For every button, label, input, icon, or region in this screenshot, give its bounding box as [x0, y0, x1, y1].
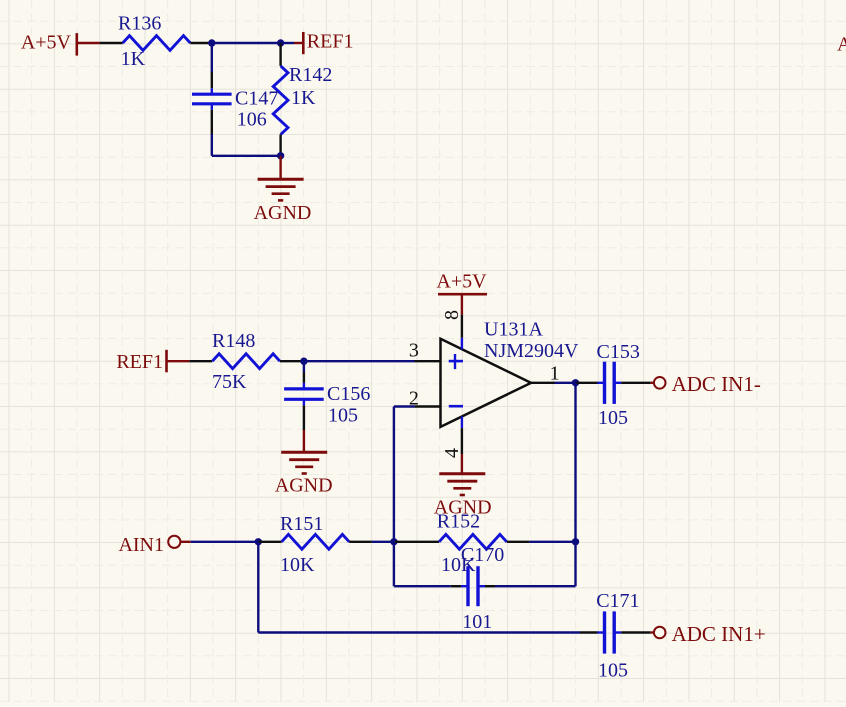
svg-text:105: 105	[598, 660, 628, 682]
svg-text:3: 3	[409, 340, 419, 362]
svg-text:1K: 1K	[291, 87, 316, 109]
svg-text:105: 105	[598, 407, 628, 429]
svg-text:NJM2904V: NJM2904V	[484, 340, 579, 362]
svg-text:A+5V: A+5V	[837, 34, 846, 56]
svg-text:C153: C153	[597, 341, 640, 363]
svg-text:4: 4	[441, 448, 463, 458]
svg-text:1K: 1K	[121, 48, 146, 70]
svg-text:8: 8	[441, 310, 463, 320]
svg-text:R151: R151	[280, 513, 323, 535]
svg-text:C147: C147	[235, 88, 278, 110]
svg-text:A+5V: A+5V	[21, 32, 72, 54]
svg-text:1: 1	[550, 363, 560, 385]
svg-text:75K: 75K	[212, 371, 247, 393]
svg-text:C171: C171	[596, 590, 639, 612]
svg-text:10K: 10K	[280, 554, 315, 576]
svg-text:C170: C170	[461, 544, 504, 566]
svg-text:A+5V: A+5V	[436, 271, 487, 293]
svg-text:R142: R142	[289, 64, 332, 86]
svg-text:ADC IN1-: ADC IN1-	[672, 372, 761, 396]
svg-text:ADC IN1+: ADC IN1+	[672, 622, 766, 646]
svg-text:REF1: REF1	[307, 31, 354, 53]
svg-text:U131A: U131A	[484, 319, 543, 341]
svg-text:101: 101	[462, 611, 492, 633]
svg-text:R136: R136	[118, 13, 161, 35]
svg-text:R152: R152	[437, 511, 480, 533]
svg-text:106: 106	[237, 109, 267, 131]
svg-text:C156: C156	[327, 383, 370, 405]
svg-text:REF1: REF1	[116, 351, 163, 373]
svg-text:AIN1: AIN1	[118, 534, 164, 556]
svg-text:105: 105	[328, 405, 358, 427]
svg-text:R148: R148	[212, 330, 255, 352]
svg-text:AGND: AGND	[275, 475, 333, 497]
svg-text:AGND: AGND	[254, 202, 312, 224]
svg-text:2: 2	[409, 388, 419, 410]
